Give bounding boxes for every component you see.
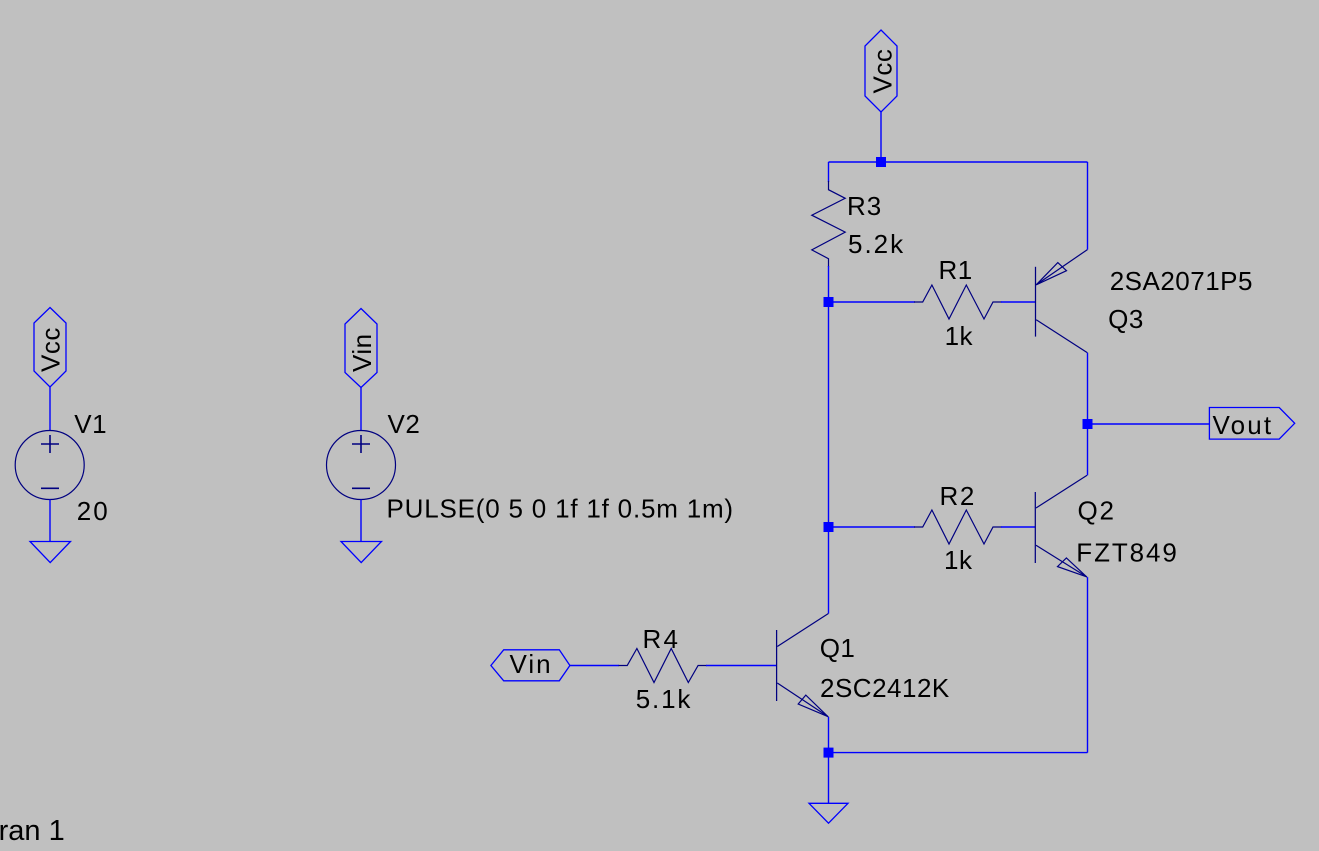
wire Vin flag to R4	[570, 665, 619, 667]
wire ground node down	[828, 753, 830, 804]
wire Q3 emitter to rail	[1087, 162, 1089, 250]
voltage source V1	[15, 431, 84, 500]
transistor Q1 (NPN 2SC2412K)	[777, 614, 829, 717]
junction ground node	[824, 748, 834, 758]
svg-text:Q2: Q2	[1078, 496, 1116, 526]
wire Vout node to flag	[1088, 423, 1210, 425]
wire V1 to ground	[49, 500, 51, 542]
svg-text:V1: V1	[74, 409, 107, 439]
svg-text:Vout: Vout	[1213, 410, 1274, 440]
wire R1 to Q3 base	[1001, 301, 1036, 303]
ground (main)	[809, 803, 848, 823]
svg-text:2SA2071P5: 2SA2071P5	[1110, 266, 1253, 296]
svg-text:Vcc: Vcc	[868, 49, 898, 94]
wire Vcc flag to rail	[880, 112, 882, 162]
ground (V2)	[341, 542, 382, 563]
ground (V1)	[30, 542, 71, 563]
svg-text:Vin: Vin	[510, 649, 553, 679]
svg-text:Q1: Q1	[820, 633, 856, 663]
wire R3 to node A	[828, 266, 830, 302]
svg-text:Vcc: Vcc	[36, 327, 66, 372]
wire Q1 emitter to ground node	[828, 717, 830, 753]
wire node A to R1	[829, 301, 916, 303]
voltage source V2	[327, 431, 396, 500]
svg-text:V2: V2	[388, 409, 421, 439]
junction Vout node	[1083, 419, 1093, 429]
svg-text:R3: R3	[847, 191, 882, 221]
wire node B down to Q1 collector	[828, 527, 830, 614]
resistor R3	[812, 181, 845, 267]
svg-text:PULSE(0 5 0 1f 1f 0.5m 1m): PULSE(0 5 0 1f 1f 0.5m 1m)	[387, 494, 734, 524]
svg-text:20: 20	[77, 496, 110, 526]
wire ground node to Q2 emitter	[829, 752, 1088, 754]
transistor Q2 (NPN FZT849)	[1035, 475, 1087, 577]
junction Vcc rail	[876, 157, 886, 167]
net flag Vcc (top)	[865, 30, 898, 112]
svg-text:FZT849: FZT849	[1076, 538, 1178, 568]
wire Q3 collector to Vout node	[1087, 353, 1089, 424]
wire node B to R2	[829, 526, 916, 528]
svg-text:2SC2412K: 2SC2412K	[820, 673, 950, 703]
resistor R4	[619, 649, 707, 683]
resistor R2	[914, 510, 1002, 544]
svg-text:5.1k: 5.1k	[636, 684, 692, 714]
wire V2 to ground	[360, 500, 362, 542]
svg-text:1k: 1k	[945, 321, 974, 351]
wire Q2 collector to Vout node	[1087, 424, 1089, 475]
junction node B	[824, 522, 834, 532]
net flag Vout	[1209, 408, 1294, 441]
transistor Q3 (PNP 2SA2071P5)	[1036, 250, 1088, 353]
net flag Vcc (V1)	[34, 308, 66, 388]
wire Vcc flag to V1	[49, 387, 51, 431]
svg-text:5.2k: 5.2k	[848, 229, 905, 259]
net flag Vin (V2)	[345, 309, 377, 388]
wire Vin flag to V2	[360, 388, 362, 432]
wire R2 to Q2 base	[1001, 526, 1035, 528]
svg-text:.tran 1: .tran 1	[0, 815, 65, 847]
svg-text:R1: R1	[939, 255, 973, 285]
svg-text:1k: 1k	[944, 545, 973, 575]
wire R4 to Q1 base	[706, 665, 777, 667]
wire top rail	[829, 161, 1088, 163]
wire Q2 emitter down	[1087, 577, 1089, 753]
resistor R1	[914, 285, 1002, 319]
svg-text:Q3: Q3	[1108, 304, 1144, 334]
svg-text:R4: R4	[643, 624, 681, 654]
wire rail to R3	[828, 162, 830, 182]
junction node A	[824, 297, 834, 307]
svg-text:Vin: Vin	[347, 333, 377, 372]
svg-text:R2: R2	[940, 481, 976, 511]
net flag Vin (input)	[491, 649, 570, 681]
wire node A down to node B	[828, 302, 830, 527]
